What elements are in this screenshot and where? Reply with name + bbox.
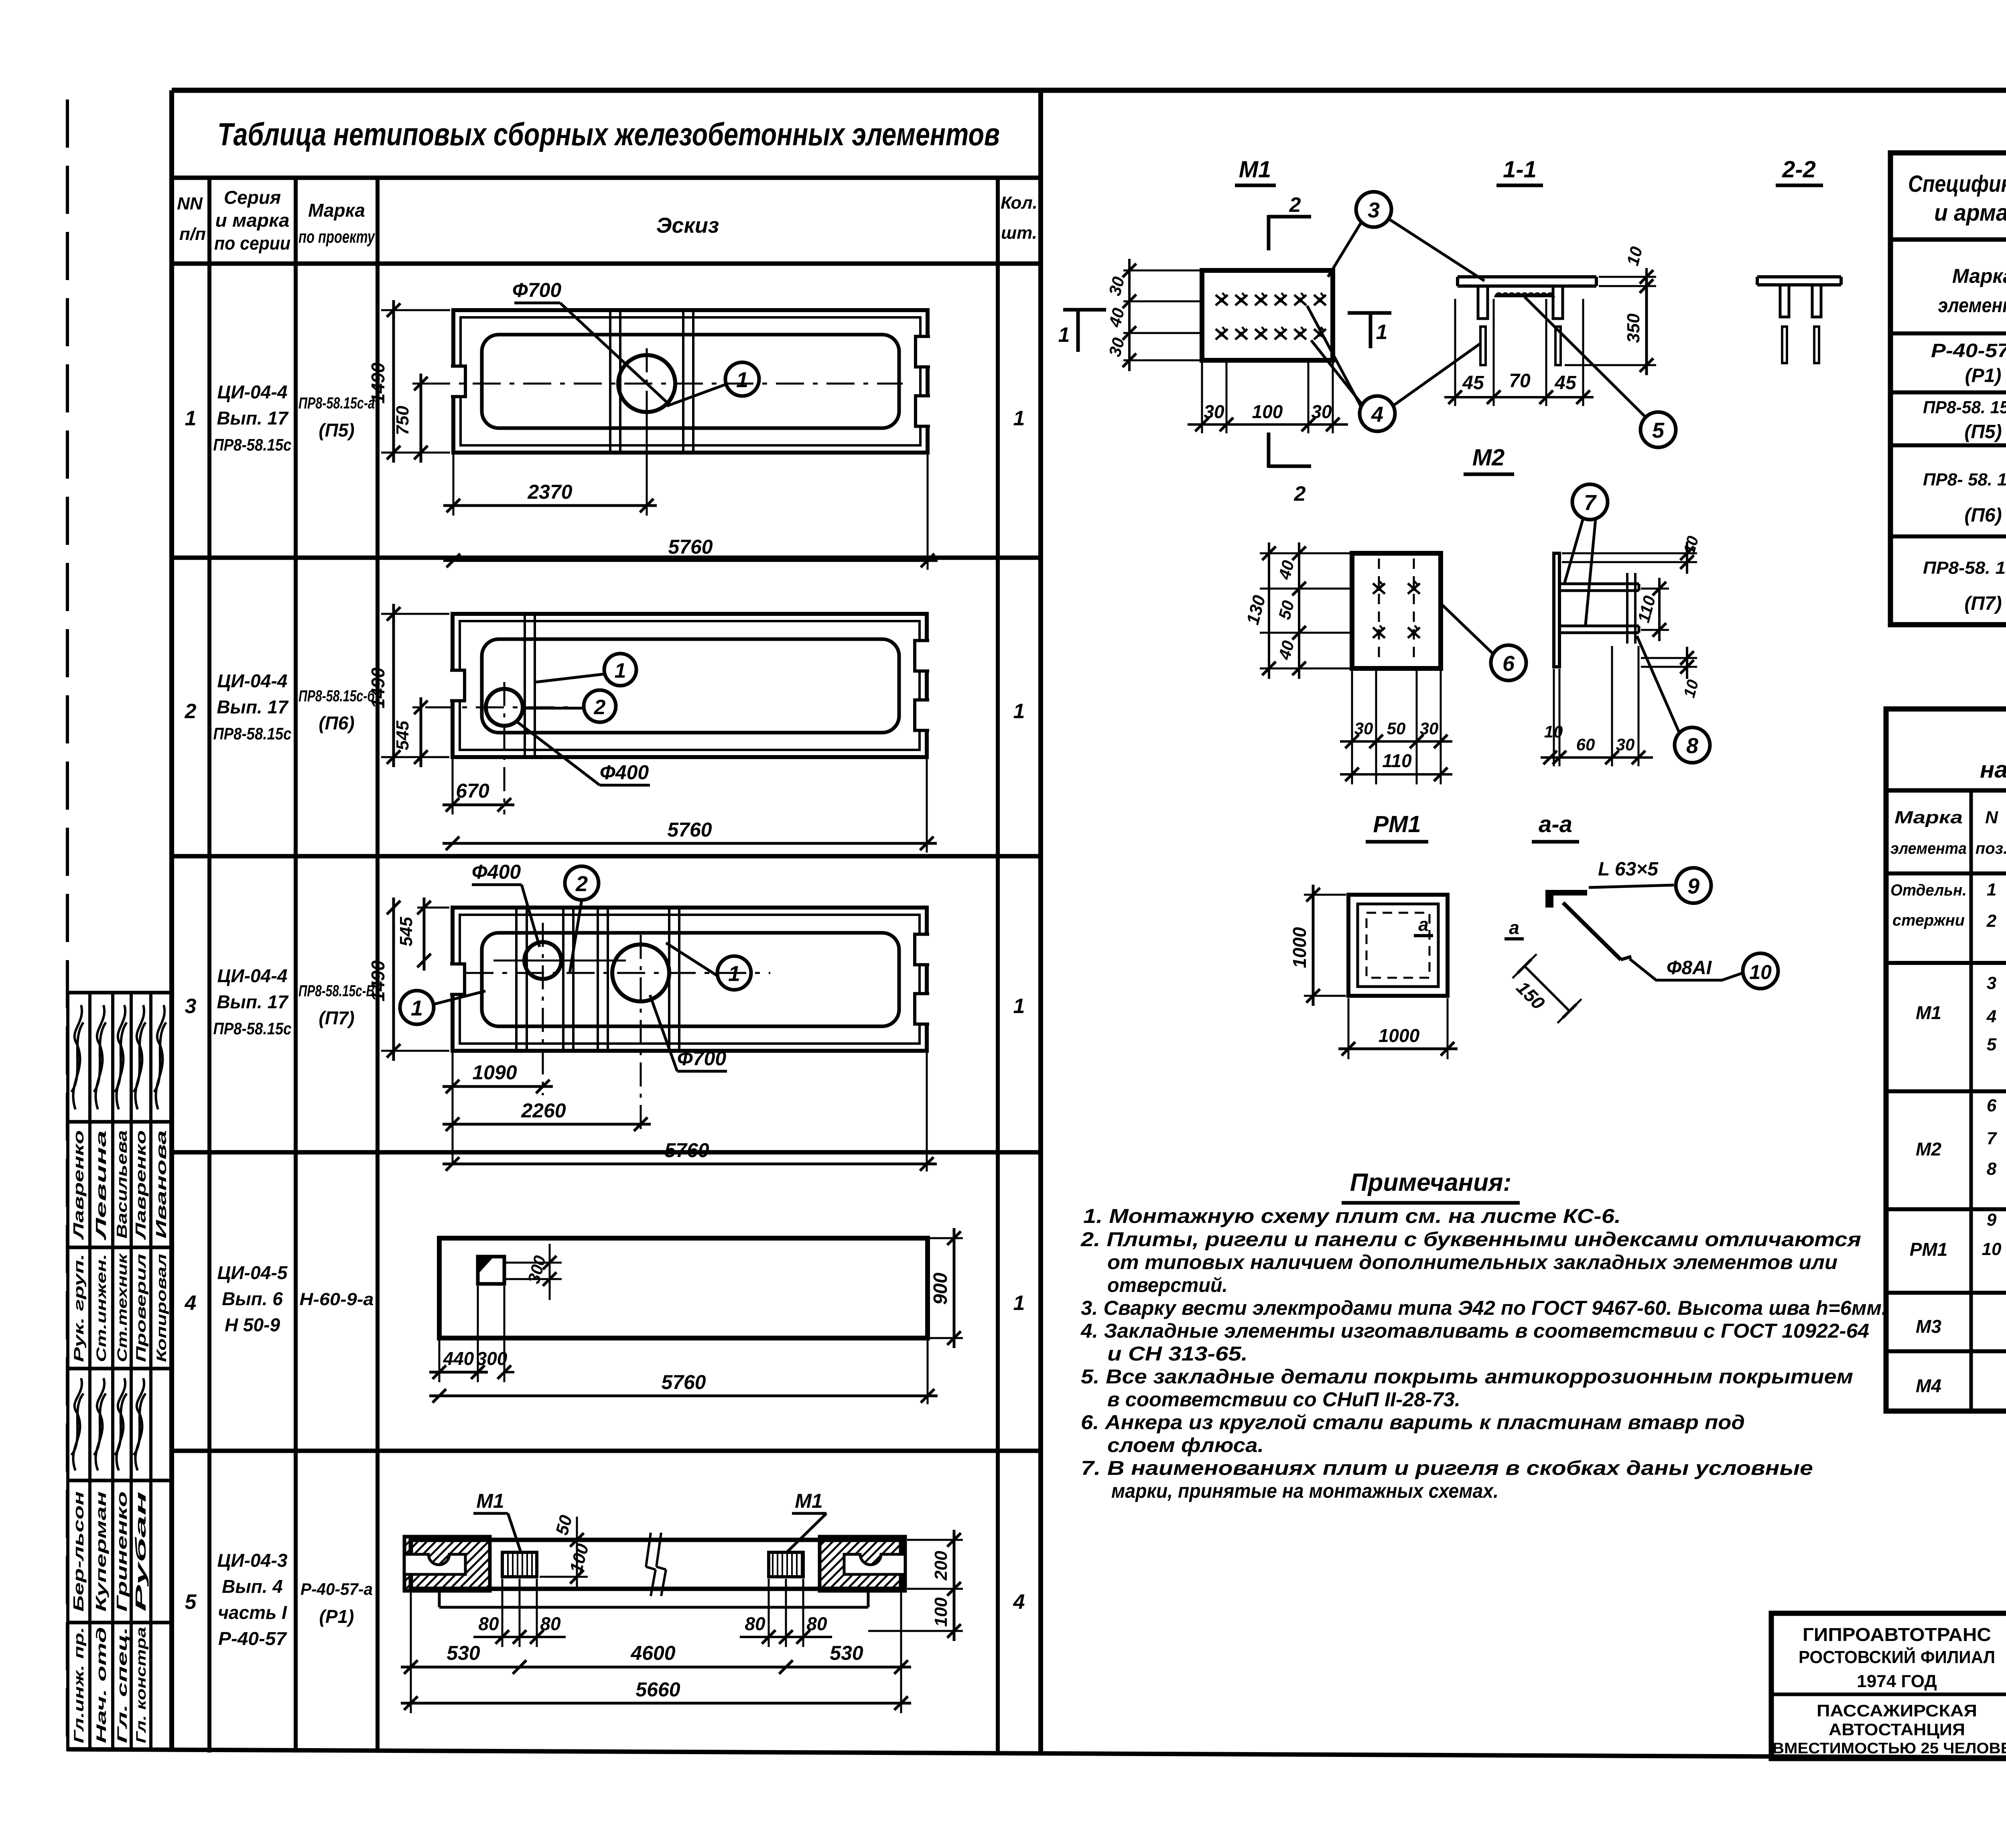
svg-text:1090: 1090: [472, 1061, 517, 1084]
svg-text:60: 60: [1576, 735, 1595, 754]
svg-text:ВМЕСТИМОСТЬЮ 25 ЧЕЛОВЕК: ВМЕСТИМОСТЬЮ 25 ЧЕЛОВЕК: [1773, 1740, 2006, 1757]
svg-text:80: 80: [745, 1613, 765, 1634]
M2 side anchors: [1559, 583, 1639, 585]
svg-text:Р-40-57-а: Р-40-57-а: [300, 1580, 373, 1598]
dim 670 row2: [452, 759, 454, 814]
svg-text:отверстий.: отверстий.: [1107, 1274, 1228, 1296]
svg-text:4600: 4600: [630, 1642, 675, 1664]
row 2 sketch: slab ПР8-58.15с-б plan with hole d400: [453, 614, 927, 757]
svg-text:Р-40-57: Р-40-57: [218, 1628, 288, 1649]
svg-text:110: 110: [1382, 750, 1412, 771]
embed bar lines row1: [609, 312, 611, 451]
dim 1490 row3: [381, 1050, 449, 1052]
spec1 row ПР8-58.15с-а: [1890, 443, 2006, 447]
signature block lower signatures: [71, 1378, 83, 1470]
svg-text:стержни: стержни: [1892, 912, 1965, 929]
M2 side view plate: [1554, 553, 1559, 667]
svg-text:шт.: шт.: [1001, 223, 1037, 243]
svg-text:350: 350: [1624, 313, 1643, 343]
hole d700 row3: [612, 944, 669, 1001]
svg-text:марки, принятые на монтажны: марки, принятые на монтажных схемах.: [1111, 1480, 1498, 1502]
svg-text:200: 200: [931, 1551, 951, 1581]
svg-text:Вып. 17: Вып. 17: [217, 408, 289, 428]
svg-text:Серия: Серия: [224, 187, 281, 208]
svg-text:Гл.инж. пр.: Гл.инж. пр.: [71, 1627, 87, 1743]
hole d400 row2: [486, 689, 523, 726]
spec table 2: Спецификация стали на один закладной элемент: [1886, 709, 2006, 1411]
M1 anchor marks bottom row: [1216, 327, 1228, 339]
svg-text:АВТОСТАНЦИЯ: АВТОСТАНЦИЯ: [1829, 1720, 1965, 1739]
dim 150 diagonal: [1525, 966, 1569, 1011]
dim 5760 row3: [926, 1053, 928, 1172]
dim 750 row1: [412, 383, 419, 385]
svg-text:5760: 5760: [664, 1139, 709, 1162]
svg-text:300: 300: [477, 1348, 508, 1369]
callout 6: [1491, 645, 1526, 680]
callout 8: [1675, 727, 1710, 763]
svg-text:по серии: по серии: [214, 233, 290, 254]
1-1 dim 10 plate thickness: [1599, 276, 1656, 278]
embed plate M1 left row5: [502, 1552, 537, 1577]
dim 5660 row5: [401, 1702, 911, 1705]
svg-text:(П5): (П5): [319, 420, 354, 441]
svg-text:4: 4: [1013, 1590, 1025, 1614]
M2 bottom dims 30 50 30 110: [1351, 670, 1353, 784]
svg-text:Спецификация дополнительных: Спецификация дополнительных закладных эл…: [1908, 171, 2006, 197]
svg-text:Н-60-9-а: Н-60-9-а: [300, 1290, 374, 1309]
callout 5: [1641, 412, 1676, 447]
svg-text:М1: М1: [795, 1490, 822, 1512]
svg-text:2: 2: [575, 872, 588, 896]
callout 1 row2: [604, 654, 636, 686]
svg-text:(П6): (П6): [1964, 505, 2002, 526]
svg-text:6. Анкера из круглой стали: 6. Анкера из круглой стали варить к плас…: [1081, 1411, 1745, 1434]
svg-text:ПАССАЖИРСКАЯ: ПАССАЖИРСКАЯ: [1817, 1701, 1977, 1720]
2-2 left anchor: [1780, 285, 1789, 317]
svg-text:2. Плиты, ригели и панели с: 2. Плиты, ригели и панели с буквенными и…: [1080, 1228, 1861, 1251]
row 1 sketch: slab ПР8-58.15с-а plan with hole d700: [453, 310, 928, 453]
svg-text:Куперман: Куперман: [93, 1491, 109, 1612]
M2 anchor marks: [1373, 581, 1385, 594]
svg-text:Лавренко: Лавренко: [132, 1130, 149, 1241]
callout 1 row1: [725, 362, 759, 396]
M2 dashed anchor axes: [1378, 558, 1380, 664]
sheet frame bottom border: [67, 1749, 2006, 1760]
dims 530 4600 530 row5: [410, 1591, 412, 1713]
svg-text:а-а: а-а: [1539, 811, 1572, 837]
svg-text:1: 1: [1013, 1292, 1025, 1315]
svg-text:ПР8-58.15с-а: ПР8-58.15с-а: [298, 394, 375, 412]
callout 1 row3 left: [400, 991, 434, 1024]
bottom ledge line row5: [439, 1606, 868, 1609]
svg-text:1: 1: [1013, 407, 1025, 430]
svg-text:РМ1: РМ1: [1910, 1239, 1948, 1260]
svg-text:2: 2: [185, 700, 197, 723]
svg-text:слоем флюса.: слоем флюса.: [1107, 1434, 1264, 1456]
centerline row1: [422, 383, 903, 385]
svg-text:2: 2: [1986, 911, 1997, 931]
svg-text:Таблица нетиповых сборных ж: Таблица нетиповых сборных железобетонных…: [217, 116, 1000, 152]
title block org cell: [1771, 1693, 2006, 1696]
svg-text:(П7): (П7): [1964, 593, 2002, 614]
svg-text:и марка: и марка: [215, 210, 290, 231]
svg-text:80: 80: [806, 1613, 827, 1634]
svg-text:30: 30: [1311, 401, 1332, 422]
hatched left end row5: [404, 1537, 490, 1591]
svg-text:Бер-льсон: Бер-льсон: [70, 1491, 87, 1612]
svg-text:45: 45: [1554, 372, 1577, 394]
svg-text:10: 10: [1982, 1239, 2002, 1259]
row 3 sketch: slab ПР8-58.15с-в plan with holes d400 d700: [453, 908, 927, 1051]
section mark 1 left: [1063, 308, 1106, 312]
svg-text:ПР8-58.15с-В: ПР8-58.15с-В: [298, 982, 375, 1000]
svg-text:Гриненко: Гриненко: [114, 1491, 130, 1612]
embed plate M1 right row5: [769, 1552, 803, 1577]
svg-text:70: 70: [1509, 370, 1531, 392]
row 4 sketch: panel Н-60-9-а plan: [439, 1238, 928, 1338]
callout 1 row3 right: [717, 956, 751, 990]
svg-text:2-2: 2-2: [1782, 156, 1816, 183]
dims 200 100 right side row5: [907, 1539, 963, 1541]
svg-text:а: а: [1418, 914, 1429, 935]
square hole row4: [478, 1257, 504, 1284]
svg-text:Копировал: Копировал: [154, 1254, 169, 1362]
svg-text:80: 80: [478, 1613, 499, 1634]
spec1 row ПР8-58.15с-б: [1890, 534, 2006, 538]
svg-text:3. Сварку вести электродами: 3. Сварку вести электродами типа Э42 по …: [1081, 1297, 1887, 1319]
svg-text:Лавренко: Лавренко: [70, 1130, 87, 1241]
svg-text:Марка: Марка: [1952, 265, 2006, 287]
svg-text:ПР8- 58. 15с-б: ПР8- 58. 15с-б: [1923, 470, 2006, 489]
svg-text:5: 5: [1652, 418, 1665, 443]
signature block lower grid: [66, 1369, 69, 1751]
svg-text:Нач. отд: Нач. отд: [94, 1627, 109, 1743]
1-1 right anchor: [1553, 286, 1563, 319]
svg-text:30: 30: [1204, 401, 1224, 422]
svg-text:4. Закладные элементы изгот: 4. Закладные элементы изготавливать в со…: [1080, 1320, 1869, 1342]
svg-text:М1: М1: [1239, 156, 1271, 183]
section mark 2 bottom: [1267, 433, 1271, 468]
centerline row3: [465, 972, 770, 974]
svg-text:элемента: элемента: [1938, 294, 2006, 317]
svg-text:ПР8-58. 15с - а: ПР8-58. 15с - а: [1923, 398, 2006, 417]
svg-text:Гл. спец.: Гл. спец.: [115, 1627, 130, 1743]
svg-text:1: 1: [1013, 700, 1025, 723]
svg-text:элемента: элемента: [1890, 840, 1967, 857]
svg-text:530: 530: [830, 1642, 863, 1664]
а-а anchor bar d8: [1563, 903, 1621, 960]
sheet frame top border: [172, 88, 2006, 93]
svg-text:1: 1: [728, 962, 740, 986]
svg-text:РОСТОВСКИЙ ФИЛИАЛ: РОСТОВСКИЙ ФИЛИАЛ: [1799, 1647, 1995, 1667]
2-2 right anchor: [1812, 285, 1821, 317]
svg-text:3: 3: [1987, 973, 1996, 993]
svg-text:в соответствии со СНиП II-2: в соответствии со СНиП II-28-73.: [1107, 1388, 1460, 1411]
svg-text:М1: М1: [476, 1490, 504, 1512]
svg-text:по проекту: по проекту: [298, 227, 376, 247]
svg-text:5760: 5760: [667, 818, 712, 841]
embed bar lines row3: [515, 910, 518, 1049]
svg-text:Иванова: Иванова: [153, 1130, 169, 1239]
svg-text:440: 440: [443, 1348, 474, 1369]
callout 7: [1572, 484, 1608, 520]
dims 440 300 row4: [439, 1340, 441, 1382]
svg-text:ЦИ-04-4: ЦИ-04-4: [217, 670, 288, 691]
svg-text:М2: М2: [1472, 445, 1505, 471]
РМ1 dim 1000 bottom: [1348, 998, 1350, 1059]
svg-text:ПР8-58. 15с-в: ПР8-58. 15с-в: [1923, 558, 2006, 578]
svg-text:Ф400: Ф400: [472, 861, 521, 883]
svg-text:6: 6: [1502, 652, 1515, 676]
svg-text:РМ1: РМ1: [1373, 811, 1421, 837]
svg-text:(П6): (П6): [319, 713, 354, 733]
hole dims 300 row4: [504, 1262, 562, 1264]
РМ1 dim 1000 left: [1304, 894, 1346, 896]
svg-text:Ф400: Ф400: [600, 761, 649, 784]
dim 2370 row1: [453, 455, 455, 516]
svg-text:Ст.инжен.: Ст.инжен.: [94, 1254, 109, 1362]
svg-text:1490: 1490: [367, 960, 388, 1001]
svg-text:1-1: 1-1: [1503, 156, 1537, 183]
1-1 dim 350: [1565, 364, 1656, 366]
svg-text:Вып. 4: Вып. 4: [222, 1576, 283, 1597]
svg-text:8: 8: [1686, 734, 1698, 758]
svg-text:30: 30: [1420, 719, 1439, 738]
svg-text:9: 9: [1987, 1210, 1997, 1230]
РМ1 frame squares: [1348, 895, 1448, 996]
svg-text:Васильева: Васильева: [114, 1130, 130, 1239]
spec table 1: Спецификация дополнительных закладных элементов: [1890, 153, 2006, 625]
svg-text:1: 1: [1376, 321, 1388, 344]
svg-text:Ф8АI: Ф8АI: [1667, 957, 1712, 979]
dim 2260 row3: [443, 1123, 651, 1126]
dim 900 row4: [930, 1237, 963, 1239]
svg-text:4: 4: [185, 1292, 197, 1315]
dims 50 100 row5 mid: [540, 1539, 588, 1541]
svg-text:п/п: п/п: [179, 224, 206, 244]
svg-text:Ст.техник: Ст.техник: [115, 1253, 130, 1362]
svg-text:50: 50: [1387, 719, 1406, 738]
svg-text:1: 1: [615, 659, 626, 682]
svg-text:и СН 313-65.: и СН 313-65.: [1107, 1342, 1248, 1365]
hole d700 row1: [618, 355, 675, 412]
1-1 bottom dims 45 70 45: [1454, 299, 1456, 406]
svg-text:ПР8-58.15с: ПР8-58.15с: [213, 1019, 292, 1038]
svg-text:7: 7: [1584, 491, 1597, 515]
svg-text:Н 50-9: Н 50-9: [225, 1314, 280, 1335]
svg-text:1: 1: [411, 996, 423, 1020]
svg-text:3: 3: [185, 995, 197, 1018]
dim 1490 row1: [381, 309, 450, 311]
svg-text:5660: 5660: [636, 1678, 680, 1701]
svg-text:2: 2: [594, 696, 606, 719]
svg-text:3: 3: [1368, 198, 1380, 222]
svg-text:ЦИ-04-4: ЦИ-04-4: [217, 382, 288, 402]
section mark 1 right: [1348, 311, 1391, 315]
svg-text:М3: М3: [1916, 1316, 1941, 1337]
svg-text:ГИПРОАВТОТРАНС: ГИПРОАВТОТРАНС: [1803, 1624, 1991, 1645]
M1 left dims 30 40 30: [1123, 270, 1200, 272]
svg-text:1: 1: [185, 407, 197, 430]
svg-text:670: 670: [456, 780, 489, 802]
centerline row2: [425, 707, 574, 709]
svg-text:5. Все закладные детали по: 5. Все закладные детали покрыть антикорр…: [1081, 1365, 1853, 1388]
svg-text:М4: М4: [1916, 1375, 1941, 1396]
svg-text:ЦИ-04-5: ЦИ-04-5: [217, 1262, 288, 1283]
dim 545 row3: [417, 907, 449, 909]
svg-text:1: 1: [1987, 880, 1996, 900]
M2 left dims 40 50 40 and 130: [1260, 552, 1350, 554]
svg-text:ЦИ-04-4: ЦИ-04-4: [217, 965, 288, 986]
svg-text:1: 1: [736, 368, 748, 392]
svg-text:900: 900: [930, 1273, 951, 1305]
svg-text:от типовых наличием дополни: от типовых наличием дополнительных закла…: [1107, 1251, 1837, 1273]
svg-text:7. В наименованиях плит и: 7. В наименованиях плит и ригеля в скобк…: [1081, 1457, 1813, 1479]
svg-text:N: N: [1985, 808, 1998, 827]
M2 side dim 10 top: [1562, 552, 1697, 554]
dim 5760 row1: [927, 455, 929, 570]
dim 545 row2: [412, 707, 419, 709]
svg-text:ЦИ-04-3: ЦИ-04-3: [217, 1550, 288, 1571]
svg-text:9: 9: [1687, 874, 1699, 898]
M2 side dim 10 bottom right: [1641, 657, 1697, 659]
spec1 row Р-40-57-а: [1890, 390, 2006, 394]
svg-text:1: 1: [1013, 995, 1025, 1018]
svg-text:6: 6: [1987, 1096, 1997, 1115]
svg-text:2260: 2260: [521, 1099, 566, 1122]
dims 80 80 right row5: [768, 1579, 770, 1647]
svg-text:5: 5: [1987, 1035, 1997, 1054]
row 5 sketch: girder Р-40-57-а elevation: [411, 1540, 901, 1589]
svg-text:80: 80: [540, 1613, 561, 1634]
svg-text:1000: 1000: [1379, 1025, 1420, 1046]
svg-text:М1: М1: [1916, 1002, 1941, 1023]
svg-text:(П7): (П7): [319, 1007, 354, 1028]
svg-text:Марка: Марка: [1894, 808, 1963, 827]
svg-text:Ф700: Ф700: [512, 279, 562, 301]
callout 3: [1356, 192, 1391, 227]
svg-text:и арматуры и расход стали н: и арматуры и расход стали на один элемен…: [1934, 200, 2006, 226]
1-1 plate: [1458, 275, 1596, 278]
svg-text:7: 7: [1987, 1129, 1998, 1148]
svg-text:4: 4: [1986, 1007, 1996, 1026]
svg-text:Вып. 17: Вып. 17: [217, 697, 289, 717]
svg-text:поз.: поз.: [1976, 840, 2006, 857]
break marks row5: [646, 1533, 651, 1567]
svg-text:Левина: Левина: [93, 1130, 109, 1241]
sheet frame left dashed border: [66, 100, 69, 1749]
M2 plate plan: [1352, 553, 1441, 668]
svg-text:545: 545: [393, 721, 412, 750]
svg-text:4: 4: [1371, 402, 1383, 426]
svg-text:Примечания:: Примечания:: [1350, 1169, 1511, 1196]
2-2 plate: [1757, 275, 1841, 278]
main table: Таблица нетиповых сборных железобетонных элементов: [172, 176, 1041, 180]
svg-text:1: 1: [1058, 323, 1070, 347]
svg-text:Р-40-57- а: Р-40-57- а: [1931, 340, 2006, 361]
svg-text:30: 30: [1354, 719, 1373, 738]
svg-text:1. Монтажную схему плит см: 1. Монтажную схему плит см. на листе КС-…: [1083, 1205, 1621, 1227]
svg-text:30: 30: [1616, 735, 1635, 754]
svg-text:Проверил: Проверил: [134, 1254, 149, 1362]
M2 side bottom dims 10 60 30: [1553, 669, 1555, 766]
svg-text:10: 10: [1749, 961, 1772, 983]
embed bar lines row2: [524, 616, 526, 755]
title block frame: [1771, 1613, 2006, 1759]
svg-text:5760: 5760: [661, 1371, 706, 1393]
dim 1090 row3: [452, 1053, 454, 1164]
svg-text:ПР8-58.15с-б: ПР8-58.15с-б: [298, 687, 375, 705]
svg-text:1974 ГОД: 1974 ГОД: [1857, 1671, 1937, 1691]
svg-text:Эскиз: Эскиз: [656, 213, 719, 238]
hatched right end row5: [820, 1537, 905, 1591]
svg-text:Отдельн.: Отдельн.: [1890, 881, 1967, 899]
svg-text:2370: 2370: [527, 481, 572, 503]
svg-text:5: 5: [185, 1590, 197, 1614]
svg-text:5760: 5760: [668, 536, 713, 558]
svg-text:Вып. 6: Вып. 6: [222, 1288, 283, 1309]
svg-text:(Р1): (Р1): [319, 1606, 354, 1627]
M1 anchor marks top row: [1216, 293, 1228, 305]
svg-text:М2: М2: [1916, 1139, 1941, 1160]
section mark 2 top: [1267, 215, 1271, 250]
svg-text:(Р1): (Р1): [1965, 365, 2002, 386]
svg-text:NN: NN: [177, 194, 203, 213]
svg-text:на один закладной элемент: на один закладной элемент: [1980, 757, 2006, 783]
svg-text:(П5): (П5): [1964, 421, 2002, 443]
svg-text:750: 750: [393, 406, 412, 435]
svg-text:Ф700: Ф700: [677, 1047, 727, 1070]
detail M1 plate plan: [1202, 270, 1333, 360]
callout 4: [1360, 396, 1395, 431]
M2 side hook bars: [1626, 573, 1628, 644]
M2 side dim 110: [1641, 588, 1669, 590]
signature block upper signatures: [71, 1005, 83, 1109]
callout 2 row3: [565, 866, 599, 900]
svg-text:Гл. констра: Гл. констра: [134, 1627, 149, 1743]
svg-text:ПР8-58.15с: ПР8-58.15с: [213, 435, 292, 454]
svg-text:530: 530: [447, 1642, 480, 1664]
svg-text:100: 100: [1252, 401, 1283, 422]
svg-text:1000: 1000: [1289, 927, 1310, 968]
svg-text:10: 10: [1544, 722, 1563, 741]
hole d400 row3: [524, 942, 561, 979]
1-1 left anchor: [1478, 286, 1488, 319]
dim 1490 row2: [381, 613, 449, 615]
svg-text:а: а: [1509, 917, 1519, 938]
signature block upper grid: [66, 993, 69, 1369]
1-1 weld bead: [1496, 293, 1502, 296]
svg-text:8: 8: [1987, 1159, 1997, 1179]
svg-text:Кол.: Кол.: [1001, 193, 1038, 213]
svg-text:1490: 1490: [367, 362, 388, 404]
svg-text:1490: 1490: [367, 667, 388, 709]
svg-text:2: 2: [1289, 193, 1301, 217]
svg-text:45: 45: [1462, 372, 1484, 394]
svg-text:545: 545: [396, 917, 416, 946]
svg-text:100: 100: [931, 1597, 951, 1627]
M1 bottom dims 30 100 30: [1201, 362, 1203, 433]
svg-text:L 63×5: L 63×5: [1598, 859, 1659, 880]
svg-text:Вып. 17: Вып. 17: [217, 991, 289, 1012]
svg-text:Рубан: Рубан: [132, 1491, 149, 1612]
dims 80 80 left row5: [501, 1579, 504, 1647]
dim 5760 row2: [926, 759, 928, 853]
svg-text:Марка: Марка: [308, 200, 365, 221]
а-а angle L63x5: [1545, 890, 1587, 908]
callout 2 row2: [584, 690, 616, 722]
dim 5760 row4: [927, 1340, 929, 1404]
